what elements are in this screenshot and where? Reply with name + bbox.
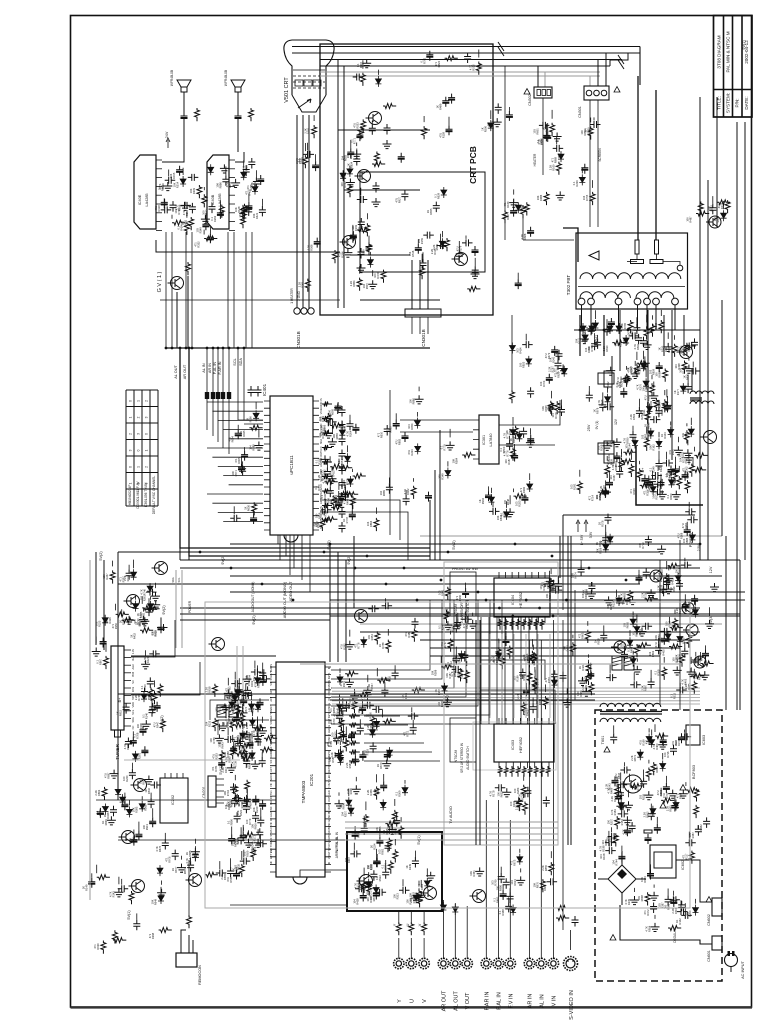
svg-text:V OUT: V OUT (327, 851, 331, 859)
wire band r2 (360, 623, 722, 625)
svg-text:100: 100 (344, 857, 348, 862)
transformer T302 FBT box (576, 233, 688, 309)
svg-text:471: 471 (629, 489, 633, 494)
svg-text:471: 471 (119, 577, 123, 582)
svg-text:4.7K: 4.7K (610, 809, 614, 815)
transistor power switch Q601 (624, 775, 642, 793)
svg-text:1K: 1K (478, 499, 482, 502)
capacitor (165, 177, 176, 184)
diode (458, 651, 464, 662)
svg-text:Y: Y (393, 923, 397, 926)
resistor (464, 670, 469, 683)
capacitor video amp C1 (384, 124, 391, 135)
svg-text:2.2K: 2.2K (320, 425, 324, 431)
svg-text:471: 471 (377, 432, 381, 437)
wire tuner sda (242, 646, 244, 730)
electrolytic capacitor (207, 233, 214, 243)
diode (504, 509, 510, 520)
svg-text:0.1: 0.1 (142, 714, 146, 718)
transistor Q20 left area (212, 638, 225, 651)
capacitor (648, 678, 655, 689)
diode (348, 805, 354, 816)
svg-text:103: 103 (620, 643, 624, 648)
ground (624, 801, 633, 810)
svg-text:1K: 1K (246, 417, 250, 420)
wire scl gray (181, 570, 183, 648)
ground (580, 335, 589, 344)
svg-text:SDA: SDA (131, 717, 135, 723)
ground (684, 365, 693, 374)
connector CN602 (712, 898, 722, 916)
wire mid bus 8 (230, 591, 745, 593)
resistor (549, 862, 554, 875)
capacitor av bus C1 (205, 392, 209, 399)
svg-text:VCC: VCC (319, 446, 323, 452)
resistor (511, 448, 516, 461)
capacitor (369, 124, 376, 135)
electrolytic capacitor (543, 131, 550, 141)
ground (254, 442, 263, 451)
electrolytic capacitor (245, 202, 252, 212)
ground (240, 797, 249, 806)
ground (647, 589, 656, 598)
svg-text:471: 471 (111, 623, 115, 628)
svg-text:T601: T601 (601, 736, 605, 745)
wire psu to cn602 (676, 860, 712, 902)
electrolytic capacitor (521, 494, 528, 504)
capacitor (352, 755, 359, 766)
svg-text:2.2K: 2.2K (641, 592, 645, 598)
svg-text:TUNER: TUNER (115, 743, 120, 760)
svg-text:F.AL IN: F.AL IN (496, 992, 502, 1010)
resistor jack V (422, 922, 427, 935)
power supply dashed outline (595, 710, 722, 981)
capacitor (681, 733, 692, 740)
capacitor (259, 669, 266, 680)
svg-text:100: 100 (504, 459, 508, 464)
capacitor (216, 870, 227, 877)
wire CN201 pins (216, 779, 224, 803)
capacitor (591, 340, 598, 351)
resistor (700, 661, 713, 666)
capacitor (620, 767, 631, 774)
ground (664, 343, 673, 352)
electrolytic capacitor (236, 686, 243, 696)
wire bus drop 2 (610, 53, 628, 66)
wire fbt left entry (563, 228, 578, 262)
svg-text:471: 471 (353, 643, 357, 648)
ground (345, 641, 354, 650)
svg-text:1: 1 (129, 482, 133, 484)
capacitor (433, 202, 440, 213)
svg-text:2.2K: 2.2K (642, 812, 646, 818)
svg-text:100: 100 (326, 741, 330, 746)
border frame bottom emphasis (71, 1006, 753, 1008)
svg-text:104: 104 (582, 195, 586, 200)
svg-text:AL OUT: AL OUT (174, 365, 178, 379)
resistor (696, 211, 709, 216)
svg-text:104: 104 (407, 424, 411, 429)
wire sec h1 (574, 559, 737, 561)
ground (664, 574, 673, 583)
svg-text:471: 471 (643, 490, 647, 495)
capacitor video amp C2 (373, 182, 380, 193)
electrolytic capacitor (587, 670, 594, 680)
resistor (544, 192, 549, 205)
electrolytic capacitor (425, 492, 432, 502)
svg-text:471: 471 (519, 487, 523, 492)
diode (496, 650, 502, 661)
resistor (140, 628, 153, 633)
svg-text:10K: 10K (357, 709, 361, 714)
capacitor (676, 687, 687, 694)
capacitor (522, 341, 533, 348)
svg-text:2.2K: 2.2K (548, 165, 552, 171)
svg-text:IC301: IC301 (482, 435, 486, 445)
resistor (670, 625, 683, 630)
capacitor (243, 757, 250, 768)
ground (630, 896, 639, 905)
svg-text:KEY0: KEY0 (327, 766, 331, 773)
svg-text:100: 100 (122, 776, 126, 781)
capacitor (605, 839, 616, 846)
capacitor av bus C5 (227, 392, 231, 399)
ground (220, 164, 229, 173)
diode (558, 151, 564, 162)
wire choke out 3 (364, 742, 424, 744)
electrolytic capacitor (335, 750, 342, 760)
CRT PCB outline (320, 44, 493, 315)
svg-text:1K: 1K (578, 666, 582, 669)
resistor (320, 518, 325, 531)
connector jack AR IN (524, 958, 534, 968)
electrolytic capacitor (511, 452, 518, 462)
wire power v2 (647, 310, 649, 440)
svg-text:100: 100 (333, 738, 337, 743)
diode (366, 879, 372, 890)
wire tuner right 2 (131, 662, 200, 695)
ground (107, 816, 116, 825)
transformer T302 pins (578, 298, 585, 305)
resistor (212, 684, 217, 697)
wire band v1 (329, 544, 331, 662)
diode (241, 169, 247, 180)
power section line h (563, 514, 695, 516)
resistor (615, 816, 620, 829)
diode (139, 801, 145, 812)
svg-text:47U: 47U (154, 206, 158, 211)
svg-text:10K: 10K (649, 445, 653, 450)
svg-text:1K: 1K (144, 789, 148, 792)
svg-text:2.2K: 2.2K (366, 789, 370, 795)
resistor (264, 736, 277, 741)
capacitor (617, 789, 624, 800)
wire mid v c (439, 430, 441, 560)
electrolytic capacitor (259, 800, 266, 810)
diode (180, 176, 186, 187)
wire psu bottom run (620, 905, 712, 944)
wire rail r4 (744, 122, 746, 430)
capacitor C-sda (255, 386, 262, 397)
ground (382, 760, 391, 769)
wire audio drop 6 (233, 232, 235, 348)
svg-text:2.2K: 2.2K (581, 685, 585, 691)
capacitor (453, 654, 460, 665)
ground (563, 699, 572, 708)
wire sw mid h1 (480, 660, 545, 680)
wire rail r8 (725, 536, 727, 710)
wire B+ elbow (636, 446, 703, 505)
svg-text:1K: 1K (435, 105, 439, 108)
wire jack v F.AR (485, 800, 487, 938)
svg-text:100: 100 (580, 130, 584, 135)
junction dots band (329, 543, 332, 546)
svg-text:1K: 1K (643, 424, 647, 427)
capacitor (524, 787, 531, 798)
electrolytic capacitor (360, 892, 367, 902)
ground (506, 508, 515, 517)
inductor LF205 (349, 759, 360, 764)
wire CN301 drop a (589, 76, 591, 86)
diode (669, 477, 675, 488)
electrolytic capacitor (158, 623, 165, 633)
diode (689, 532, 695, 543)
wire audio drop 4 (191, 232, 193, 348)
capacitor (703, 817, 710, 828)
wire fbt heavy 2 (603, 315, 605, 356)
ground (335, 800, 344, 809)
resistor (692, 681, 697, 694)
svg-text:VIF: VIF (269, 720, 273, 724)
svg-text:100: 100 (133, 619, 137, 624)
ground (683, 449, 692, 458)
wire jack U up (410, 938, 412, 959)
svg-text:104: 104 (584, 347, 588, 352)
ground (684, 454, 693, 463)
svg-text:2.2K: 2.2K (610, 796, 614, 802)
resistor speaker 2 (249, 108, 254, 121)
svg-text:2.2K: 2.2K (629, 414, 633, 420)
resistor (680, 654, 685, 667)
op-amp IC602 body (650, 845, 676, 878)
capacitor (257, 816, 264, 827)
capacitor (232, 795, 243, 802)
wire hef v0 (480, 617, 482, 724)
diode (675, 573, 681, 584)
electrolytic capacitor (615, 793, 622, 803)
resistor (236, 704, 241, 717)
svg-text:2.2K: 2.2K (630, 755, 634, 761)
svg-text:AUDIO: AUDIO (269, 773, 273, 781)
wire hef v2 (496, 617, 498, 724)
ground (468, 620, 477, 629)
resistor R-mid1 (503, 210, 508, 223)
wire scl h (238, 419, 263, 421)
capacitor (590, 121, 601, 128)
capacitor (643, 568, 650, 579)
resistor (644, 326, 649, 339)
resistor (339, 718, 344, 731)
capacitor (692, 657, 703, 664)
wire ic201 bundle (332, 687, 700, 689)
diode (488, 120, 494, 131)
diode (515, 202, 521, 213)
capacitor (616, 468, 623, 479)
svg-text:4.7K: 4.7K (468, 65, 472, 71)
resistor remote R (187, 915, 192, 928)
wire power v4 (691, 369, 693, 392)
wire IC201 left long 2 (218, 720, 269, 735)
ground (163, 182, 172, 191)
triangle warn psu4 (660, 803, 666, 808)
svg-text:100: 100 (340, 182, 344, 187)
svg-text:4.7K: 4.7K (417, 884, 421, 890)
svg-text:10K: 10K (595, 548, 599, 553)
resistor (663, 369, 668, 382)
wire v mid2 (511, 315, 513, 390)
diode (347, 166, 353, 177)
svg-text:LF: LF (341, 722, 345, 725)
diode (339, 427, 345, 438)
capacitor (170, 201, 177, 212)
resistor (112, 930, 117, 943)
svg-text:10K: 10K (562, 646, 566, 651)
capacitor (681, 562, 692, 569)
capacitor (239, 465, 246, 476)
wire rail h b+ (118, 693, 595, 695)
svg-text:SCL: SCL (233, 358, 237, 365)
capacitor (555, 580, 562, 591)
CRT V501 tube bell (284, 40, 334, 95)
resistor network IC404 (498, 619, 503, 630)
electrolytic capacitor (233, 870, 240, 880)
capacitor (552, 587, 563, 594)
wire tuner pin 10 (124, 717, 131, 719)
transformer T303 (690, 391, 714, 394)
svg-text:1K: 1K (185, 852, 189, 855)
resistor (638, 643, 651, 648)
ground (516, 876, 525, 885)
capacitor (423, 232, 434, 239)
triangle warn cn602 (706, 897, 712, 902)
svg-text:2 GND: 2 GND (297, 290, 301, 300)
svg-text:471: 471 (643, 910, 647, 915)
capacitor (461, 651, 468, 662)
wire ic401 bot v1 (285, 535, 287, 556)
svg-text:47U: 47U (681, 523, 685, 528)
capacitor (147, 677, 154, 688)
svg-text:SIF: SIF (269, 806, 273, 810)
capacitor (234, 812, 241, 823)
svg-text:0.1: 0.1 (151, 631, 155, 635)
capacitor (238, 834, 245, 845)
svg-text:471: 471 (228, 437, 232, 442)
capacitor (149, 703, 156, 714)
svg-text:47U: 47U (339, 172, 343, 177)
svg-text:104: 104 (157, 185, 161, 190)
svg-text:2: 2 (137, 416, 141, 418)
ground (345, 678, 354, 687)
wire fbt heavy drop 2 (655, 90, 657, 240)
svg-text:LED: LED (327, 775, 331, 780)
capacitor (357, 724, 364, 735)
ground (679, 790, 688, 799)
capacitor (339, 704, 346, 715)
svg-text:1K: 1K (244, 506, 248, 509)
wire main bus (165, 347, 430, 349)
wire sw v2 (512, 617, 514, 724)
svg-text:471: 471 (391, 829, 395, 834)
resistor (637, 468, 642, 481)
electrolytic capacitor (352, 830, 359, 840)
svg-text:2.2K: 2.2K (432, 244, 436, 250)
capacitor (260, 675, 271, 682)
resistor (204, 236, 217, 241)
svg-text:2: 2 (145, 400, 149, 402)
svg-text:4.7K: 4.7K (185, 858, 189, 864)
electrolytic capacitor (500, 890, 507, 900)
ground (324, 430, 333, 439)
svg-text:47U: 47U (328, 757, 332, 762)
resistor (385, 821, 398, 826)
wire fbt caps join (627, 261, 637, 263)
ground (638, 628, 647, 637)
svg-text:104: 104 (244, 675, 248, 680)
diode (415, 443, 421, 454)
capacitor (618, 810, 629, 817)
capacitor (366, 243, 373, 254)
svg-text:3: 3 (137, 433, 141, 435)
capacitor (234, 738, 245, 745)
wire mid bus 6 (230, 575, 722, 577)
wire jacks yuv up (398, 911, 400, 922)
electrolytic capacitor (620, 388, 627, 398)
svg-text:0.1: 0.1 (329, 708, 333, 712)
ground (529, 654, 538, 663)
svg-text:10K: 10K (173, 182, 177, 187)
ground (493, 118, 502, 127)
divider block 2 (598, 443, 614, 454)
wire jack F.AR IN up (485, 938, 487, 959)
svg-text:LF: LF (341, 731, 345, 734)
bus break mark 1 (498, 42, 504, 56)
svg-text:0.1: 0.1 (670, 694, 674, 698)
capacitor (343, 701, 350, 712)
electrolytic capacitor (503, 636, 510, 646)
wire crt h3 (350, 254, 410, 256)
wire in bus AL IN (345, 821, 558, 823)
svg-text:471: 471 (503, 202, 507, 207)
resistor (651, 762, 656, 775)
svg-text:100: 100 (373, 273, 377, 278)
resistor (172, 220, 185, 225)
diode (650, 806, 656, 817)
wire jack drop gray (525, 634, 527, 718)
ground (475, 867, 484, 876)
wire av bus drop b 5 (228, 399, 230, 454)
svg-text:47U: 47U (439, 133, 443, 138)
ground (92, 648, 101, 657)
wire audio drop 1 (165, 232, 167, 348)
resistor (234, 723, 247, 728)
capacitor (172, 850, 179, 861)
transistor CRT PCB Q4 (455, 253, 468, 266)
capacitor (464, 53, 471, 64)
svg-text:0.1: 0.1 (227, 820, 231, 824)
svg-text:2.2K: 2.2K (571, 573, 575, 579)
svg-text:30%: 30% (131, 686, 135, 692)
capacitor (685, 383, 692, 394)
